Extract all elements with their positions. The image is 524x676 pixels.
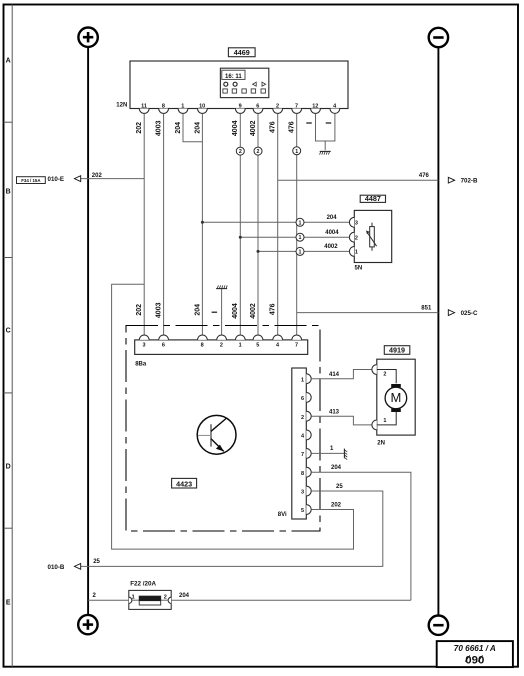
splice 1 on wire 204 xyxy=(296,218,304,226)
wire 202 loop (8Vi-5 to wire 202) xyxy=(112,284,354,549)
svg-text:414: 414 xyxy=(329,372,340,378)
label 4919 xyxy=(384,346,410,355)
svg-text:4004: 4004 xyxy=(232,120,239,136)
clock display face xyxy=(220,68,268,97)
ground (8Vi pin 7) xyxy=(343,449,345,459)
svg-text:476: 476 xyxy=(270,303,277,315)
svg-text:5: 5 xyxy=(301,508,304,514)
svg-text:1: 1 xyxy=(299,235,302,241)
svg-text:7: 7 xyxy=(295,343,298,349)
wire 4004 (pin9 to 8Ba-1) xyxy=(239,114,241,335)
svg-text:1: 1 xyxy=(355,250,358,256)
svg-text:202: 202 xyxy=(331,503,342,509)
battery + terminal (top) xyxy=(78,28,97,47)
svg-text:2: 2 xyxy=(355,235,358,241)
svg-text:A: A xyxy=(6,58,11,65)
svg-text:4002: 4002 xyxy=(250,303,257,319)
svg-text:851: 851 xyxy=(421,306,432,312)
arrow 010-B xyxy=(74,564,80,570)
svg-text:4487: 4487 xyxy=(365,194,381,203)
svg-text:11: 11 xyxy=(141,103,147,109)
svg-text:3: 3 xyxy=(142,343,145,349)
wire 202 feed (010-E) xyxy=(75,178,145,180)
svg-text:6: 6 xyxy=(301,396,304,402)
wire 204 to 4487-3 xyxy=(202,221,349,223)
wire + supply bus (left) xyxy=(87,47,89,614)
svg-text:6: 6 xyxy=(256,103,259,109)
wire 202 (pin11 to 8Ba-3) xyxy=(143,114,145,335)
svg-text:9: 9 xyxy=(239,103,242,109)
connector 12N (4469) xyxy=(139,109,149,114)
svg-text:F22 /20A: F22 /20A xyxy=(130,580,156,587)
svg-text:476: 476 xyxy=(270,121,277,133)
battery - terminal (bottom) xyxy=(429,616,448,635)
svg-text:1: 1 xyxy=(301,377,304,383)
svg-text:204: 204 xyxy=(327,215,338,221)
svg-text:2: 2 xyxy=(276,103,279,109)
svg-text:4004: 4004 xyxy=(325,230,339,236)
svg-text:2: 2 xyxy=(220,343,223,349)
motor 4919 body xyxy=(377,359,415,435)
svg-text:2N: 2N xyxy=(377,440,385,446)
svg-text:2: 2 xyxy=(383,372,386,378)
rheostat module 4487 body xyxy=(354,210,391,262)
svg-text:010-B: 010-B xyxy=(48,564,65,571)
fuse F22/20A xyxy=(129,590,171,609)
splice 1 on wire 476 xyxy=(293,147,301,155)
svg-text:5N: 5N xyxy=(355,266,363,272)
svg-text:6: 6 xyxy=(162,343,165,349)
wire 2 (bus to fuse) xyxy=(88,599,139,601)
svg-text:4919: 4919 xyxy=(389,346,405,355)
label F34/15A xyxy=(17,177,46,184)
svg-text:413: 413 xyxy=(329,409,340,415)
svg-text:204: 204 xyxy=(194,122,201,134)
connector 8Vi pins xyxy=(306,374,311,384)
splice 1 on wire 4004 xyxy=(296,233,304,241)
svg-text:2: 2 xyxy=(239,149,242,155)
wire 204 (fuse to 8Vi-8) xyxy=(161,599,411,601)
svg-text:204: 204 xyxy=(175,122,182,134)
arrow 010-E xyxy=(74,176,80,182)
ground (8Ba pin 2) xyxy=(221,289,223,335)
battery + terminal (bottom) xyxy=(78,615,97,634)
arrow 702-B xyxy=(448,177,454,183)
svg-text:16: 11: 16: 11 xyxy=(225,74,242,80)
svg-text:204: 204 xyxy=(179,593,190,599)
svg-text:202: 202 xyxy=(136,304,143,316)
connector 8Vi body xyxy=(292,368,307,519)
svg-text:E: E xyxy=(6,600,11,607)
svg-text:25: 25 xyxy=(336,484,343,490)
svg-text:1: 1 xyxy=(299,220,302,226)
svg-text:D: D xyxy=(6,464,11,471)
wire 851 to 025-C xyxy=(297,312,439,314)
ECU 4423 boundary (dashed) xyxy=(126,326,320,532)
battery - terminal (top) xyxy=(429,28,448,47)
wire 413 (8Vi-2 to 4919-1) xyxy=(312,416,372,425)
wire 1 (8Vi-7 to ground) xyxy=(312,452,345,454)
svg-text:7: 7 xyxy=(295,103,298,109)
title block 70 6661/A 090 xyxy=(437,641,513,667)
svg-text:202: 202 xyxy=(92,173,103,179)
svg-text:025-C: 025-C xyxy=(461,310,478,317)
svg-text:2: 2 xyxy=(164,595,167,601)
label 4469 xyxy=(228,48,255,57)
svg-text:8: 8 xyxy=(201,343,204,349)
svg-text:B: B xyxy=(6,189,11,196)
svg-text:12N: 12N xyxy=(116,103,127,109)
svg-text:8Ba: 8Ba xyxy=(135,362,147,368)
svg-text:1: 1 xyxy=(181,103,184,109)
wire 204 (pin1 jog) xyxy=(183,114,202,142)
svg-text:8Vi: 8Vi xyxy=(278,512,287,518)
wire 4002 to 4487-1 xyxy=(258,250,349,252)
svg-text:204: 204 xyxy=(194,304,201,316)
wire 25 (8Vi-3 to 010-B) xyxy=(75,491,383,566)
connector 2N (4919) xyxy=(372,365,377,375)
splice 2 on wire 4002 xyxy=(254,147,262,155)
arrow 025-C xyxy=(448,310,454,316)
clock module 4469 body xyxy=(130,61,348,109)
svg-text:4002: 4002 xyxy=(250,120,257,136)
svg-text:3: 3 xyxy=(355,221,358,227)
svg-text:F34 / 15A: F34 / 15A xyxy=(21,178,41,183)
wire 204 (pin10 to 8Ba-8) xyxy=(201,114,203,335)
svg-text:4003: 4003 xyxy=(156,302,163,318)
svg-text:5: 5 xyxy=(256,343,259,349)
svg-text:8: 8 xyxy=(162,103,165,109)
motor M symbol xyxy=(377,370,396,384)
wire - ground bus (right) xyxy=(437,48,439,616)
svg-text:M: M xyxy=(390,390,401,405)
svg-text:70 6661 / A: 70 6661 / A xyxy=(454,644,496,653)
wire 476 (pin2 to 8Ba-4) xyxy=(277,114,279,335)
ground (4469 pins 12+4) xyxy=(316,114,335,141)
svg-text:25: 25 xyxy=(93,559,100,565)
svg-text:3: 3 xyxy=(301,490,304,496)
wire 414 (8Vi-1 to 4919-2) xyxy=(312,370,372,379)
connector 8Ba pins xyxy=(139,335,149,340)
svg-text:702-B: 702-B xyxy=(461,178,478,185)
connector 8Ba body xyxy=(135,340,308,355)
svg-text:2: 2 xyxy=(301,415,304,421)
splice 2 on wire 4004 xyxy=(236,147,244,155)
transistor (ECU output stage) xyxy=(197,415,236,454)
wire 204 (8Vi-8 to fuse) xyxy=(312,472,411,600)
svg-text:1: 1 xyxy=(383,418,386,424)
svg-text:10: 10 xyxy=(199,103,205,109)
svg-text:4423: 4423 xyxy=(176,479,192,488)
svg-text:1: 1 xyxy=(132,595,135,601)
svg-text:12: 12 xyxy=(312,103,318,109)
svg-text:1: 1 xyxy=(239,343,242,349)
connector 5N (4487) xyxy=(349,217,354,227)
svg-text:1: 1 xyxy=(299,249,302,255)
splice 1 on wire 4002 xyxy=(296,247,304,255)
svg-text:4004: 4004 xyxy=(232,303,239,319)
svg-text:8: 8 xyxy=(301,471,304,477)
svg-text:4469: 4469 xyxy=(234,48,250,57)
svg-text:476: 476 xyxy=(289,121,296,133)
wire 476 to 702-B xyxy=(278,179,439,181)
svg-text:476: 476 xyxy=(419,173,430,179)
svg-text:C: C xyxy=(6,328,11,335)
wire 4002 (pin6 to 8Ba-5) xyxy=(257,114,259,335)
wire 4004 to 4487-2 xyxy=(240,236,349,238)
wire 4003 (pin8 to 8Ba-6) xyxy=(163,114,165,335)
svg-text:010-E: 010-E xyxy=(48,176,65,183)
svg-text:202: 202 xyxy=(136,122,143,134)
svg-text:1: 1 xyxy=(295,149,298,155)
svg-text:4002: 4002 xyxy=(324,244,338,250)
rheostat symbol xyxy=(371,223,373,227)
svg-text:4003: 4003 xyxy=(156,120,163,136)
label 4423 xyxy=(172,478,197,488)
label 4487 xyxy=(360,195,385,202)
svg-text:7: 7 xyxy=(301,452,304,458)
wire 476/851 (pin7 to 8Ba-7) xyxy=(296,114,298,335)
svg-text:204: 204 xyxy=(331,465,342,471)
svg-text:2: 2 xyxy=(257,149,260,155)
